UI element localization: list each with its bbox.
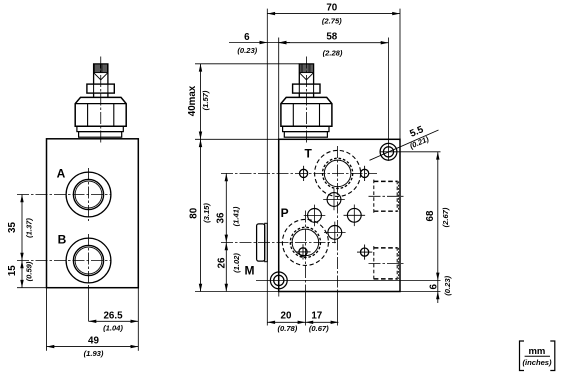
port A outer circle [66,172,111,217]
right screw cone [300,73,314,80]
dim 26 top arrow [225,242,228,250]
svg-text:(2.28): (2.28) [323,48,343,57]
port B vertical centerline [88,234,90,288]
interface port 4 crosshair [324,231,346,233]
body bottom extension line [195,291,279,293]
svg-text:35: 35 [7,222,18,233]
left locknut flats [93,84,95,93]
svg-text:T: T [305,147,313,161]
dia 5.5 leader line [370,130,439,160]
svg-text:(0.23): (0.23) [237,46,257,55]
corner hole TR horizontal line [380,151,441,153]
port P hole circle [292,229,319,256]
dim 26.5 arrows [89,320,97,323]
corner hole top-right [380,143,397,160]
svg-text:6: 6 [244,32,250,43]
dim 36 bottom arrow [225,235,228,243]
side port lower centerline [369,262,405,264]
corner hole TR vertical line [388,38,390,161]
body top extension line [195,138,279,140]
svg-text:80: 80 [189,207,200,218]
dim 49 arrows [47,345,55,348]
side port lower dashed outline [374,246,399,281]
left view valve body outline [47,139,139,288]
port B counterbore ring [73,245,103,275]
legend fraction line [525,355,550,357]
right screw slot hatch [299,64,313,72]
left hex cap [75,97,126,126]
dim 6 arrows [260,41,268,44]
left stem neck [93,93,95,97]
right view valve body outline [279,139,400,291]
svg-text:70: 70 [326,2,337,13]
dim 80 top arrow [199,139,202,147]
svg-text:68: 68 [425,210,436,221]
M port plug head [257,224,265,261]
port T thread dashed ring [323,158,353,188]
svg-text:M: M [245,263,255,277]
port P counterbore dashed circle [282,219,328,265]
stem top extension line [195,63,299,65]
side port upper dashed outline [374,180,399,213]
port T counterbore dashed circle [315,150,361,196]
svg-text:A: A [57,166,66,180]
left hex cap flats [87,104,89,127]
right hex cap [281,97,332,126]
dim 68-6 line [437,152,439,303]
svg-text:36: 36 [216,212,227,223]
port A horizontal centerline [17,194,112,196]
body right edge extension up [399,9,401,140]
svg-text:49: 49 [88,335,99,346]
dim 6 top line [229,42,290,44]
dim 35-15 line [21,195,23,288]
svg-text:20: 20 [281,310,292,321]
dim 35 bottom arrow [20,253,23,261]
interface port circle 3 [347,208,361,222]
corner hole bottom-left [270,272,287,289]
body bottom extension right [400,291,441,293]
svg-text:mm: mm [528,346,545,357]
port P thread dashed ring [290,227,320,257]
svg-text:6: 6 [429,284,440,290]
left edge extension down [46,288,48,351]
port P horizontal centerline [221,241,336,243]
legend right bracket [550,341,555,371]
port A thread circle [75,181,102,208]
svg-text:B: B [58,232,67,246]
svg-text:(inches): (inches) [522,358,552,367]
dim 68 bottom arrow [436,273,439,281]
dim 26.5 line [89,320,139,322]
left cap washer 2 [79,132,122,138]
right locknut [293,84,320,93]
tab extension line [266,9,268,326]
svg-text:40max: 40max [187,85,198,116]
left screw slot hatch [94,64,108,72]
port T extension to dim [337,292,339,326]
interface port circle 1 [327,193,341,207]
svg-text:(0.23): (0.23) [443,275,452,295]
bolt hole 2 [361,169,369,177]
port A vertical centerline [88,168,90,221]
left adjust screw stem [94,64,108,84]
left hex cap shoulder line [75,103,126,105]
dim 40max-80 line [200,64,202,292]
port B thread circle [75,247,102,274]
left locknut [87,84,114,93]
svg-text:15: 15 [7,265,18,276]
interface port circle 4 [328,226,342,240]
right cartridge centerline [305,57,307,144]
right locknut flats [298,84,300,93]
svg-text:17: 17 [311,310,322,321]
interface port 1 crosshair [323,199,345,201]
port P extension to dim [304,292,306,326]
body left edge extension up [278,38,280,140]
port P vertical centerline [304,211,306,292]
dim 15 bottom arrow [20,280,23,288]
side port upper centerline [369,195,405,197]
port T hole circle [324,160,351,187]
dim 40max bottom arrow [199,132,202,140]
bolt hole 3 [299,248,307,256]
dim 17 arrows [305,321,313,324]
svg-text:(1.41): (1.41) [231,206,240,226]
port A counterbore ring [73,179,103,209]
bottom holes horizontal centerline [256,279,441,281]
dim 70 line [267,13,400,15]
svg-text:(1.57): (1.57) [201,90,210,110]
M port boss band [265,223,268,261]
svg-text:(1.93): (1.93) [84,349,104,358]
right hex cap shoulder line [281,103,332,105]
dim 20 arrows [267,321,275,324]
svg-text:(2.75): (2.75) [322,17,342,26]
svg-text:P: P [281,206,289,220]
right cap washer 1 [283,126,329,131]
left cap washer 1 [77,126,123,131]
svg-text:(1.02): (1.02) [232,253,241,273]
port T vertical centerline [337,146,339,292]
dim 15 top arrow [20,261,23,269]
dim 36-26 line [225,173,227,291]
interface port 3 crosshair [344,214,366,216]
corner hole BL vertical line [278,265,280,297]
dim 68 top arrow [436,152,439,160]
ports top horizontal centerline [221,172,377,174]
dim 6r bottom arrow [436,292,439,300]
svg-text:(1.37): (1.37) [24,218,33,238]
svg-text:58: 58 [326,31,337,42]
left screw cone [94,73,108,80]
bolt hole 1 [300,169,308,177]
left cartridge centerline [100,57,102,144]
dim 35 top arrow [20,195,23,203]
dim 40max top arrow [199,64,202,72]
interface port 2 crosshair [304,214,326,216]
legend left bracket [520,341,525,371]
port B horizontal centerline [17,260,112,262]
right hex cap flats [292,104,294,127]
svg-text:(0.78): (0.78) [277,324,297,333]
svg-text:(2.67): (2.67) [441,207,450,227]
dim 49 line [47,346,139,348]
bolt hole 4 [361,248,369,256]
svg-text:(3.15): (3.15) [202,203,211,223]
right cap washer 2 [284,132,327,138]
right stem neck [298,93,300,97]
svg-text:26: 26 [217,257,228,268]
port B extension to dim [88,288,90,322]
dim 58 line [279,42,389,44]
svg-text:(0.59): (0.59) [24,261,33,281]
dim 80 bottom arrow [199,284,202,292]
right adjust screw stem [299,64,313,84]
dim 36 top arrow [225,173,228,181]
port B outer circle [66,238,111,283]
svg-text:(0.67): (0.67) [309,324,329,333]
dim 58 arrows [279,41,287,44]
dim 70 arrows [267,12,275,15]
interface port circle 2 [308,209,322,223]
svg-text:(1.04): (1.04) [103,324,123,333]
dim 26 bottom arrow [225,284,228,292]
left body bottom extension [17,287,47,289]
dim 20-17 line [267,321,338,323]
right edge extension down [137,288,139,351]
svg-text:26.5: 26.5 [103,310,123,321]
